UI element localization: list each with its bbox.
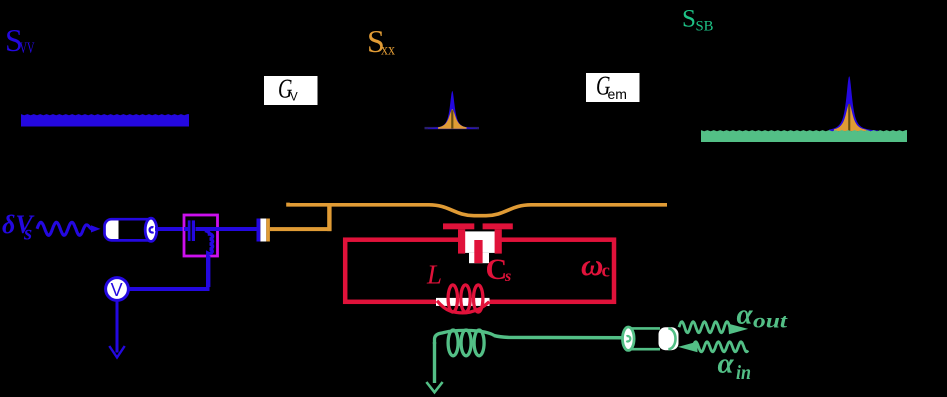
node S_SB peak blue needle fill xyxy=(829,76,878,131)
wire S_xx peak baseline xyxy=(425,127,480,129)
ground arrow (blue open V) xyxy=(109,346,124,358)
wire S_VV flat spectrum bar xyxy=(21,114,189,126)
node S_xx peak center line xyxy=(451,110,453,128)
component coupling inductor (green coil) xyxy=(435,330,495,344)
wire orange riser up xyxy=(327,205,331,231)
node deltaVs source label xyxy=(2,210,35,245)
label alpha_out xyxy=(737,299,789,333)
wire membrane top electrode with dip xyxy=(288,203,667,216)
svg-text:C: C xyxy=(486,253,508,286)
label Cs xyxy=(486,253,512,286)
component capacitor in bias box xyxy=(184,220,218,241)
component LC cavity box (red) xyxy=(345,240,614,302)
component coupling capacitor (blue/orange plates) xyxy=(260,219,266,242)
svg-text:em: em xyxy=(608,86,627,102)
wire input squiggle xyxy=(37,222,92,235)
wire coax to bias box xyxy=(155,227,185,231)
svg-text:s: s xyxy=(504,268,511,285)
svg-text:ω: ω xyxy=(581,247,603,282)
svg-text:s: s xyxy=(23,221,32,245)
svg-text:V: V xyxy=(290,92,298,104)
wire bias box to coupling capacitor xyxy=(218,227,258,231)
svg-text:in: in xyxy=(736,362,751,384)
wire green down to ground xyxy=(433,342,436,383)
svg-text:V: V xyxy=(111,280,123,300)
svg-text:α: α xyxy=(737,299,754,331)
component bias-tee box (magenta) xyxy=(184,215,218,256)
component voltmeter xyxy=(106,278,129,301)
label omega_c xyxy=(581,247,610,282)
node S_xx peak blue needle fill xyxy=(428,91,477,129)
label alpha_in xyxy=(718,348,752,385)
svg-text:SB: SB xyxy=(696,19,714,35)
wire voltmeter to ground xyxy=(116,301,119,353)
wire green coil to coax xyxy=(494,336,624,338)
svg-text:VV: VV xyxy=(20,40,35,57)
node G_em gain box xyxy=(586,72,640,102)
wire bias box down xyxy=(206,256,210,287)
wire alpha_out arrowhead xyxy=(728,324,748,335)
node G_V gain box xyxy=(264,75,318,105)
component coax cable (green) xyxy=(623,327,679,350)
node S_SB label xyxy=(682,6,714,35)
wire orange capacitor to riser xyxy=(270,227,332,231)
wire alpha_in squiggle xyxy=(694,342,748,352)
component coax cable (blue) xyxy=(105,218,157,241)
node S_SB peak center line xyxy=(848,104,850,131)
svg-text:c: c xyxy=(602,261,610,282)
svg-text:L: L xyxy=(426,260,442,290)
wire S_SB spectrum bar xyxy=(701,130,907,142)
node S_VV label xyxy=(5,22,35,58)
svg-text:α: α xyxy=(718,348,735,380)
component inductor L (red coil) xyxy=(436,298,490,306)
wire alpha_out squiggle xyxy=(679,322,730,333)
wire down-left to voltmeter xyxy=(128,287,210,291)
ground arrow (green open V) xyxy=(426,382,442,392)
component Cs electrodes xyxy=(443,223,513,263)
svg-text:S: S xyxy=(682,6,696,33)
component Cs white gap box xyxy=(459,231,499,253)
component inductor in bias box xyxy=(205,231,213,258)
wire alpha_in arrowhead xyxy=(678,342,698,353)
node S_xx label xyxy=(367,23,395,59)
node S_xx peak orange fill xyxy=(438,109,467,129)
svg-text:out: out xyxy=(753,311,789,333)
wire input arrowhead xyxy=(91,225,101,232)
node S_SB peak orange fill xyxy=(834,104,867,131)
svg-text:xx: xx xyxy=(381,42,395,59)
